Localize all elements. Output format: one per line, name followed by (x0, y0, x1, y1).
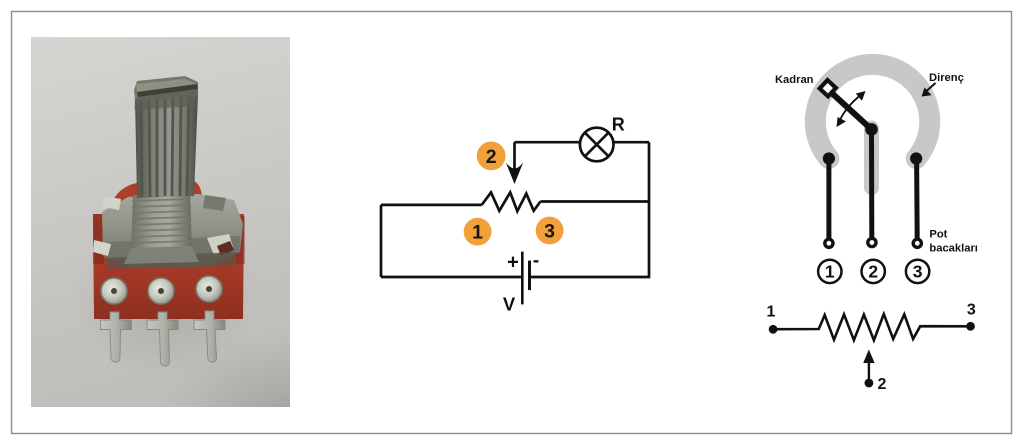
wiper arrow 2 (865, 379, 874, 388)
wire: top to lamp (515, 141, 581, 144)
wiper arrowhead (506, 163, 523, 185)
metal flange (102, 194, 243, 268)
svg-text:R: R (612, 115, 625, 135)
wire: right vertical (648, 142, 651, 278)
bushing flare (124, 246, 199, 264)
svg-text:Pot: Pot (929, 229, 947, 241)
svg-text:2: 2 (878, 376, 887, 393)
svg-text:V: V (503, 294, 516, 315)
terminal badge 3 (536, 217, 564, 245)
svg-text:2: 2 (868, 262, 878, 282)
pin number 3 (906, 260, 929, 283)
svg-text:2: 2 (486, 146, 497, 168)
potentiometer zigzag (482, 192, 541, 211)
terminal badge 1 (464, 218, 492, 246)
rotation arrows (840, 96, 860, 120)
wiper track stub (864, 128, 879, 188)
resistive track (Direnç) (815, 64, 929, 158)
leg 2 (868, 129, 876, 246)
svg-text:3: 3 (544, 221, 555, 243)
svg-text:1: 1 (472, 222, 483, 244)
pin number 1 (818, 260, 841, 283)
circuit: middle schematic (381, 128, 649, 305)
resistor element 1-3 (773, 314, 970, 340)
svg-text:bacakları: bacakları (929, 243, 978, 255)
pin number 2 (862, 260, 885, 283)
svg-text:1: 1 (825, 262, 835, 282)
leg 3 (910, 152, 922, 247)
legs (101, 311, 226, 366)
wire: lamp to right (613, 141, 649, 144)
terminal 1 dot (769, 325, 778, 334)
battery plate short (528, 261, 531, 291)
rivets (101, 278, 127, 304)
arrow to track (927, 83, 936, 91)
wiper arm (829, 91, 872, 130)
svg-text:3: 3 (913, 262, 923, 282)
svg-text:Kadran: Kadran (775, 74, 814, 86)
wire: middle row left (381, 204, 482, 207)
red housing (93, 214, 244, 319)
wire: left vertical (380, 205, 383, 277)
terminal 3 dot (966, 322, 975, 331)
threaded bushing (131, 193, 192, 254)
knurled shaft (135, 94, 198, 198)
wire: wiper vertical (513, 142, 516, 170)
leg 1 (823, 152, 835, 247)
wire: middle row right (540, 200, 649, 203)
svg-text:+: + (507, 252, 519, 274)
svg-text:3: 3 (967, 302, 976, 319)
lamp R circle (580, 128, 614, 162)
wire: battery to bottom right (530, 276, 649, 279)
shaft top cap with slot (134, 76, 198, 100)
photo: potentiometer photograph (31, 37, 425, 447)
flange tabs (103, 196, 121, 210)
svg-text:Direnç: Direnç (929, 72, 964, 84)
svg-text:1: 1 (766, 304, 775, 321)
battery plate long (521, 252, 524, 305)
terminal badge 2 (477, 142, 506, 171)
dark seam under flange (106, 252, 236, 269)
dial diamond (Kadran) (820, 80, 836, 96)
svg-text:-: - (533, 250, 539, 271)
wire: bottom left to battery (381, 276, 521, 279)
